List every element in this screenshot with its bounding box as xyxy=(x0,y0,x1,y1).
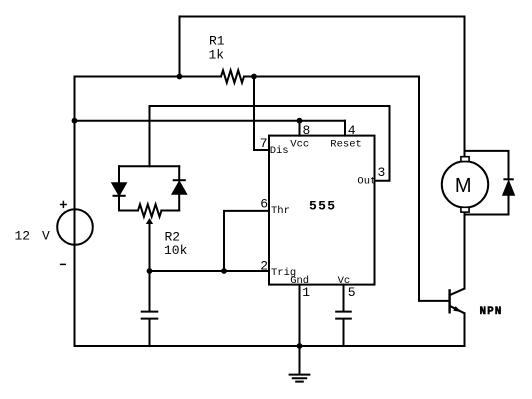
wire Thr net pin 6 left and down xyxy=(224,211,269,271)
svg-text:12: 12 xyxy=(15,229,31,244)
svg-text:Reset: Reset xyxy=(330,138,362,150)
junction dot R1 left xyxy=(177,74,183,80)
svg-text:10k: 10k xyxy=(164,243,188,258)
motor terminal top xyxy=(461,157,469,162)
wire pin 8 lead xyxy=(299,121,301,136)
wire left diode top lead xyxy=(118,166,120,183)
wire Vplus rail right segment to transistor base column xyxy=(244,77,448,301)
junction dot left rail Vcc net xyxy=(72,118,78,124)
svg-text:2: 2 xyxy=(260,259,268,274)
wire pot wiper lead down to Trig net xyxy=(149,223,151,271)
svg-text:555: 555 xyxy=(309,198,336,213)
potentiometer wiper arrow xyxy=(146,218,153,224)
wire top rail vertical left xyxy=(179,16,181,76)
transistor Q1 NPN xyxy=(450,289,465,314)
svg-text:Thr: Thr xyxy=(271,205,290,217)
svg-text:4: 4 xyxy=(348,123,356,138)
wire Vplus rail left segment xyxy=(75,76,222,78)
capacitor C1 xyxy=(142,312,158,319)
svg-text:M: M xyxy=(455,175,472,197)
svg-text:V: V xyxy=(42,229,50,244)
svg-text:6: 6 xyxy=(260,197,268,212)
svg-text:Vc: Vc xyxy=(338,275,351,287)
wire top rail horizontal xyxy=(180,15,465,17)
voltage source V1 circle xyxy=(57,209,93,245)
diode D1 left (pointing down) xyxy=(113,183,126,196)
wire right diode top lead xyxy=(178,166,180,180)
wire motor bottom to collector xyxy=(464,212,466,289)
wire right diode bottom lead xyxy=(178,194,180,211)
capacitor C2 xyxy=(336,312,351,319)
wire top rail vertical right to motor xyxy=(464,16,466,157)
junction dot R1 right / Dis xyxy=(251,74,257,80)
wire Trig net pin 2 xyxy=(150,270,270,272)
flyback diode D3 (pointing up) xyxy=(503,179,513,195)
svg-text:3: 3 xyxy=(378,165,386,180)
wire Trig node down to capacitor C1 xyxy=(149,271,151,311)
wire emitter down to bottom rail xyxy=(464,313,466,346)
potentiometer R2 zigzag xyxy=(138,204,161,216)
junction dot Trig / Thr xyxy=(221,268,227,274)
svg-text:NPN: NPN xyxy=(480,306,503,318)
diode box bottom wire right xyxy=(161,210,179,212)
svg-text:Dis: Dis xyxy=(270,145,289,157)
svg-text:R1: R1 xyxy=(209,34,225,49)
motor M1 circle xyxy=(442,161,488,207)
label source plus xyxy=(60,201,67,208)
svg-text:1k: 1k xyxy=(209,48,225,63)
wire pin 5 lead to capacitor C2 xyxy=(343,285,345,312)
junction dot Trig / wiper xyxy=(147,268,153,274)
wire pin 4 lead xyxy=(344,121,346,136)
label source minus xyxy=(60,263,66,265)
motor terminal bottom xyxy=(461,207,469,212)
diode box top wire xyxy=(119,165,179,167)
wire C2 bottom lead xyxy=(343,319,345,346)
transistor emitter arrow xyxy=(453,306,461,312)
wire bottom rail xyxy=(75,345,465,347)
wire Out net: pin3 lead, up and across to diode box top xyxy=(150,106,390,181)
wire left diode bottom lead xyxy=(118,196,120,211)
junction dot pin 8 xyxy=(297,118,303,124)
wire Vcc-Reset net horizontal xyxy=(75,120,346,122)
wire left rail xyxy=(74,77,76,347)
motor bottom node wire to flyback diode xyxy=(465,195,509,215)
svg-text:7: 7 xyxy=(260,136,268,151)
svg-text:8: 8 xyxy=(303,123,311,138)
motor top node wire to flyback diode xyxy=(465,151,509,179)
svg-text:Out: Out xyxy=(357,176,376,188)
wire C1 bottom lead xyxy=(149,319,151,346)
diode D2 right (pointing up) xyxy=(173,180,186,194)
svg-text:Vcc: Vcc xyxy=(290,138,309,150)
resistor R1 xyxy=(221,70,244,82)
IC U1 555 body xyxy=(269,136,375,285)
diode box bottom wire left xyxy=(119,210,138,212)
svg-text:Gnd: Gnd xyxy=(290,275,309,287)
junction dot Gnd rail xyxy=(297,343,303,349)
ground xyxy=(290,346,310,382)
wire pin 1 Gnd lead xyxy=(299,285,301,346)
wire Dis net from R1 down to pin 7 xyxy=(254,77,269,151)
